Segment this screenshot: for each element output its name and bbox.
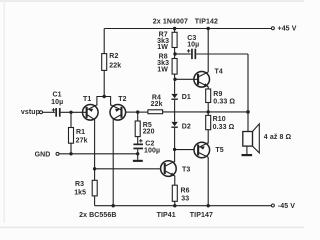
svg-text:2x BC556B: 2x BC556B [79,212,116,219]
wire: R5 to C2 [137,137,139,145]
svg-text:22k: 22k [109,62,121,69]
svg-text:2x 1N4007: 2x 1N4007 [153,18,188,25]
wire: R6 to -45 rail [174,201,176,205]
wire: T2 base to node A [126,111,138,113]
node: R1 on GND [69,152,72,155]
resistor R10 [206,115,211,129]
wire: C1 to T1 base [61,111,87,113]
wire: D2 to T5 base node and T3 collector [174,128,176,162]
svg-text:TIP147: TIP147 [190,212,213,219]
node: R7 top on rail [173,27,176,30]
transistor T1 (BC556B PNP) [83,105,99,121]
wire: D1 to D2 [174,100,176,122]
svg-text:0.33 Ω: 0.33 Ω [213,99,235,106]
svg-text:T5: T5 [215,147,223,154]
svg-text:27k: 27k [76,137,88,144]
svg-text:D2: D2 [182,123,191,130]
svg-text:22k: 22k [151,101,163,108]
terminal -45V [271,204,274,207]
svg-text:GND: GND [35,152,51,159]
node: emitter junction [103,95,106,98]
wire: GND rail [59,153,138,155]
svg-text:C2: C2 [145,140,154,147]
node: output [207,110,210,113]
wire: R1 to GND rail [70,143,72,154]
wire: node to R1 [70,112,72,127]
svg-text:R2: R2 [109,53,118,60]
svg-text:220: 220 [143,129,155,136]
svg-text:TIP41: TIP41 [157,212,176,219]
svg-text:R3: R3 [75,181,84,188]
wire: R2 to emitter bar [103,70,105,96]
svg-text:0.33 Ω: 0.33 Ω [213,124,235,131]
wire: T5 collector to -45 rail [207,157,209,206]
wire: T4 base lead [175,78,198,80]
capacitor C3 [187,49,196,59]
resistor R6 [172,185,177,201]
svg-text:1W: 1W [157,66,168,73]
svg-text:T1: T1 [83,96,91,103]
svg-text:1k5: 1k5 [74,189,86,196]
wire: R10 to T5 emitter [207,130,209,144]
wire: T5 base lead [175,149,194,151]
wire: T2 collector down to -45 rail [112,119,114,206]
node: bootstrap/output/speaker [246,110,250,114]
wire: C3 to bootstrap drop [196,53,248,55]
capacitor C1 [52,108,61,117]
wire: rail to R7 [174,29,176,33]
wire: -45V bottom rail [95,205,272,207]
diode D2 [171,122,177,128]
node: C2 on GND [136,152,139,155]
node: T5 collector on rail [207,204,210,207]
svg-text:T3: T3 [182,166,190,173]
transistor T5 (TIP147 PNP) [194,142,210,158]
svg-text:TIP142: TIP142 [195,18,218,25]
svg-text:R10: R10 [213,116,226,123]
svg-text:T4: T4 [215,69,223,76]
resistor R9 [206,89,211,103]
wire: T3 emitter to R6 [174,176,176,186]
node: R7/R8 midpoint [173,52,176,55]
terminal +45V [271,27,274,30]
node: T3 base / R3 [93,167,96,170]
wire: R9 to output node [207,103,209,116]
node: T4 collector on rail [207,27,210,30]
resistor R3 [92,180,97,196]
svg-text:R6: R6 [181,187,190,194]
svg-text:vstup: vstup [21,109,40,116]
page left edge [4,1,5,223]
terminal vstup [40,111,43,114]
resistor R4 [148,110,163,114]
wire: speaker to ground [246,146,248,154]
node A [136,110,139,113]
wire: T1 collector to T3 base [95,168,161,170]
wire: C2 to ground [137,149,139,160]
svg-text:100µ: 100µ [144,148,160,155]
transistor T4 (TIP142 NPN) [194,72,210,88]
wire: node to R3 [94,169,96,181]
wire: R3 to -45 rail [94,196,96,206]
svg-text:1W: 1W [157,44,168,51]
terminal GND [56,152,59,155]
diode D1 [171,94,177,100]
wire: node A to R5 [137,112,139,121]
wire: T4 emitter to R9 [207,86,209,89]
svg-text:C1: C1 [53,92,62,99]
wire: T4 collector to rail [207,29,209,73]
svg-text:33: 33 [181,195,189,202]
transistor T3 (TIP41 NPN) [161,161,177,177]
resistor R7 [172,32,177,47]
wire: node A to R4 [138,111,148,113]
resistor R2 [102,54,107,71]
wire: midpoint to C3 [175,53,191,55]
wire: input to C1 [43,111,55,113]
wire: emitter bar T1-T2 [97,97,111,106]
node: T5 base node [173,148,176,151]
page top edge [0,0,304,2]
svg-text:10µ: 10µ [187,42,199,49]
node: T2 collector on rail [112,204,115,207]
speaker [243,124,259,153]
wire: R7 to midpoint [174,48,176,59]
node: input node [69,111,72,114]
svg-text:-45 V: -45 V [278,203,295,210]
resistor R1 [69,128,74,144]
capacitor C2 [133,139,143,149]
resistor R5 [135,121,140,137]
wire: T1 collector down [94,119,96,169]
resistor R8 [172,59,177,75]
svg-text:+45 V: +45 V [278,26,297,33]
wire: R2 riser from top rail [103,29,105,54]
svg-text:R9: R9 [213,91,222,98]
wire: bootstrap drop to output [247,54,249,132]
node: T4 base node [173,78,176,81]
svg-text:D1: D1 [182,94,191,101]
node: R6 on rail [173,204,176,207]
wire: R8 to T4 base node [174,74,176,94]
wire: +45V top rail [104,28,271,30]
ground (C2) [133,160,143,162]
ground (speaker) [242,154,253,156]
transistor T2 (BC556B PNP) [110,105,126,121]
svg-text:4 až 8 Ω: 4 až 8 Ω [264,134,292,141]
svg-text:10µ: 10µ [51,99,63,106]
svg-text:T2: T2 [118,96,126,103]
page bottom edge [0,227,304,229]
svg-text:R1: R1 [76,129,85,136]
wire: R4 to output node (feedback line) [163,111,248,113]
